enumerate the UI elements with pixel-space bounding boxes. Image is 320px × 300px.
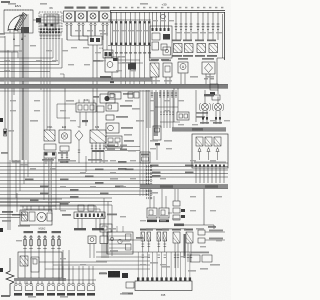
valve Y8 diamond	[75, 131, 83, 141]
connector pair E17/4	[58, 281, 60, 283]
dark connector box K1 mid	[128, 63, 136, 70]
Y3 wires right	[205, 231, 225, 233]
wire bottom elbow	[174, 224, 214, 226]
relay module K40 box	[76, 103, 96, 112]
solenoid Y16 label	[149, 60, 158, 62]
sensor S6/2	[173, 232, 180, 243]
wire bus h1 corner to X6 pin	[0, 57, 53, 59]
component X4/10 box	[108, 92, 121, 99]
connector column box 3	[173, 215, 180, 220]
connector column pins up	[174, 189, 176, 201]
feeder connector ticks row	[142, 254, 144, 256]
right small box below band	[212, 95, 220, 100]
wire stair 9	[0, 190, 150, 192]
K40 pins down	[79, 112, 81, 126]
K8/1 sub box 1	[44, 144, 56, 150]
wire stair 3	[0, 169, 228, 171]
connector tick row under band	[151, 90, 153, 98]
injector pair 2	[157, 232, 161, 241]
lamp E3/1	[202, 104, 209, 111]
terminal tick 15 to edge	[0, 36, 5, 38]
X53 pins from bus	[152, 13, 154, 29]
fuse ladder column 7	[138, 21, 140, 45]
wire join horizontals bottom	[39, 261, 107, 263]
fuse ladder column 1	[110, 21, 112, 45]
switch S30 contact pair	[24, 235, 26, 252]
fuse ladder column 6	[133, 21, 135, 45]
link wire between switches	[168, 212, 172, 214]
wire stair 2	[0, 166, 228, 168]
fuse ladder bottom rail	[108, 45, 151, 47]
lamp E15/3 terminal rings	[66, 23, 68, 25]
elbow connector ticks	[174, 224, 184, 227]
X26 band label	[192, 128, 203, 131]
connector E17/7 dark label	[87, 293, 95, 296]
harness band upper	[0, 78, 152, 81]
corner elbow left of band	[60, 73, 64, 75]
junction box outer	[18, 252, 62, 278]
gauge E5/1 dial arc	[8, 15, 24, 31]
sensor box below strip	[100, 224, 112, 232]
wire left vertical 15	[4, 36, 6, 134]
extra verticals to connector row	[62, 250, 64, 281]
wire stair 8	[0, 187, 150, 189]
sender B4 box	[105, 57, 118, 72]
X6 inner dark squares	[45, 24, 48, 27]
right bus jog down to band	[217, 57, 225, 59]
nested module circle 2	[118, 239, 122, 243]
fuse ladder top rail	[108, 19, 151, 21]
W30 label 2	[205, 185, 218, 188]
wires below switch row	[24, 252, 26, 284]
N3 bottom pins	[195, 168, 197, 183]
connector strip Y27 label	[62, 214, 71, 216]
connector pair E17/1	[26, 281, 28, 283]
meter pins down	[151, 77, 153, 84]
lamp name labels	[200, 122, 209, 124]
strip pins down	[77, 219, 79, 229]
right segment wires from B4	[118, 59, 140, 61]
connector E17/0 dark label	[14, 293, 22, 296]
relay K8/1 box	[44, 130, 55, 141]
M16/2 right box	[47, 213, 52, 221]
junction box below lamps	[88, 36, 102, 45]
connector Y1 label	[208, 226, 216, 228]
diamond pin labels	[204, 78, 208, 80]
small boxes above strip	[78, 205, 84, 211]
wire stair 7	[0, 183, 150, 185]
terminal mark left edge c	[0, 268, 3, 272]
lamp E15/4 bulb	[78, 13, 84, 19]
connector block X53 frame	[150, 26, 172, 58]
wire stair 6	[0, 180, 150, 182]
junction hatched element	[20, 256, 28, 266]
X4/10 label	[123, 93, 133, 95]
ammeter A box	[178, 62, 188, 73]
connector pair E17/3	[48, 281, 50, 283]
switch S17/8 label	[38, 231, 48, 233]
S10/1 pins up	[149, 189, 151, 208]
relay K59	[197, 44, 206, 53]
M16/2 mid box	[29, 212, 35, 221]
right mini labels	[191, 252, 209, 254]
fuse ladder column 2	[115, 21, 117, 45]
lamp wire elbows	[67, 39, 88, 41]
X6 inner box 2	[47, 16, 55, 30]
corner text bottom-left	[1, 295, 10, 297]
mini cluster join wire right	[108, 239, 140, 241]
power bus +30 double line	[110, 10, 225, 12]
box with dark circle above K40	[100, 94, 115, 103]
vertical harness bundle K8 to M16	[48, 158, 50, 212]
K8/1 pins	[45, 158, 47, 164]
connector box X26	[140, 152, 150, 163]
label X58 box	[204, 94, 214, 96]
gauge E5/1 enclosure	[4, 10, 33, 33]
terminal mark left edge a	[0, 118, 3, 122]
X35 feeders	[137, 252, 139, 277]
fuse drops right group	[175, 13, 177, 41]
X35 pin squares	[137, 277, 139, 281]
W30 label 1	[160, 185, 173, 188]
lamp pins down right	[202, 110, 204, 124]
gauge E5/1 baseline and ticks	[8, 29, 22, 31]
fuse ladder column 8	[143, 21, 145, 45]
connector X6 outer dashed box	[39, 12, 62, 33]
wire labels on stairs	[118, 161, 127, 163]
fuse ladder column 5	[129, 21, 131, 45]
M16/2 hatched element	[22, 212, 28, 221]
nested module inner box 1	[126, 234, 132, 240]
terminal circle 30	[161, 14, 166, 19]
X6 weave horizontal wires	[39, 16, 62, 18]
thin verticals beside gray harness	[146, 90, 148, 128]
lamp E15/3 wires down	[66, 26, 68, 40]
wire rows with labels left of X26	[105, 146, 140, 148]
lamp feeds up	[204, 97, 206, 104]
injector labels	[140, 229, 153, 231]
X35 feeder horizontal	[96, 251, 192, 253]
connector pair right of lamps	[128, 92, 133, 98]
elbow wire left	[0, 51, 18, 53]
bottom connector band	[14, 278, 66, 281]
relay K60	[209, 44, 218, 53]
fuse ladder column 3	[119, 21, 121, 45]
connector E17/5 dark label	[67, 293, 75, 296]
connector box under arrows	[103, 50, 113, 58]
harness companion line	[0, 90, 150, 92]
lamp E15/3 label	[65, 7, 74, 9]
X6 connector ticks below	[40, 35, 42, 37]
lamp E15/6 bulb	[102, 13, 108, 19]
lamp E15/6 label	[101, 7, 110, 9]
solenoid Y16 box	[150, 63, 159, 77]
wire right vertical long	[203, 189, 205, 225]
right dark mark below band	[210, 92, 215, 95]
N3 arrow symbols	[198, 148, 201, 152]
connector Y3 upper box	[198, 230, 205, 235]
relay K29 box	[90, 130, 106, 143]
X27 label	[116, 116, 128, 118]
wires up from connector row	[58, 266, 60, 281]
nested module verticals	[110, 228, 112, 232]
wire from K29 pin down	[85, 156, 87, 172]
fuse ladder column 4	[124, 21, 126, 45]
N3 inner bottom bar	[194, 161, 226, 163]
X53 bottom labels	[151, 59, 159, 61]
harness bundle below E5/1	[19, 14, 21, 160]
bottom horizontal wires under module	[96, 256, 150, 258]
switch S10/2 box	[159, 208, 169, 218]
connector E17/2 dark label	[36, 293, 44, 296]
switch S10/1 box	[147, 208, 157, 218]
control unit N3 frame	[192, 134, 228, 168]
nested module circle 1	[110, 237, 113, 240]
sensor S6/1	[186, 232, 193, 243]
wire bus h5	[0, 71, 50, 73]
relay K58	[185, 44, 194, 53]
nested wires above strip	[20, 205, 96, 207]
tall box left of X26 band	[153, 126, 161, 140]
tiny label smudges scatter	[8, 3, 16, 5]
connector pair E17/2	[37, 281, 39, 283]
vertical bar left of S6	[184, 234, 186, 258]
connector E17/6 dark label	[77, 293, 85, 296]
fuse ladder label row	[110, 52, 113, 54]
E24 pins	[61, 151, 63, 163]
K40 loop wire left	[57, 103, 76, 105]
lamp E15/6 terminal rings	[102, 23, 104, 25]
lamp E15/5 terminal rings	[90, 23, 92, 25]
connector column box 2	[173, 208, 180, 213]
K40 top pin stubs	[78, 100, 80, 104]
small boxes above N3	[177, 112, 189, 120]
relay module bottom nested outer	[107, 232, 133, 254]
second dark block	[122, 273, 128, 278]
wire stair 12	[0, 201, 112, 203]
lamp E15/5 bulb	[90, 13, 96, 19]
lamp E15/4 label	[77, 7, 86, 9]
connector column box 1	[173, 201, 180, 206]
lamp E15/5 wires down	[90, 26, 92, 40]
X6 junction dots	[40, 28, 42, 30]
small box left of strip	[126, 282, 134, 288]
junction tall element	[31, 257, 39, 272]
sensor box pins	[102, 232, 104, 236]
bus tiny terminal tags	[113, 7, 115, 9]
switch S10/9 contact pair	[52, 235, 54, 252]
E24 pin ticks	[61, 154, 63, 156]
X6 left terminal dark	[36, 18, 41, 23]
connector E17/1 dark label	[25, 293, 33, 296]
lamp E15/5 housing box	[88, 11, 99, 22]
X53 dark block	[163, 34, 170, 40]
M16/2 top pins	[22, 206, 24, 210]
small mark below tall box	[155, 143, 160, 145]
lamp E15/6 wires down	[102, 26, 104, 40]
lamp E15/6 housing box	[100, 11, 111, 22]
wire stair 11	[0, 197, 112, 199]
connector strip Y27	[74, 212, 105, 219]
bus corner down right	[224, 12, 226, 60]
component M4 box with motor	[106, 123, 119, 133]
arrow end left wire	[3, 131, 6, 136]
W10 label left	[99, 273, 107, 275]
sensor labels S6	[172, 229, 181, 231]
connector pair E17/6	[78, 281, 80, 283]
relay row labels	[172, 55, 182, 57]
mini switch Y31/2	[100, 236, 108, 244]
sender B4 label	[93, 60, 103, 62]
nested module label right	[136, 237, 143, 239]
E24 terminal box	[60, 146, 69, 151]
fuse ladder feeds from bus	[111, 13, 113, 22]
K8 lower box dark marks	[45, 153, 48, 156]
gauge E5/1 terminal block	[21, 27, 29, 33]
gauge E5/1 needle hatched	[14, 13, 27, 31]
N3 element 3	[214, 137, 221, 146]
connector Y3 lower box	[198, 238, 205, 243]
tick marks on verticals	[160, 111, 162, 113]
gauge diamond label	[202, 58, 214, 60]
X6 weave vertical wires corner ends	[52, 14, 54, 58]
Y8 pin ticks	[78, 149, 80, 151]
M16/2 motor circle	[37, 212, 46, 221]
connector E17/3 dark label	[47, 293, 55, 296]
N3 element 2	[205, 137, 212, 146]
connector junction column ticks	[146, 165, 148, 167]
injector pair 1	[141, 232, 145, 241]
band end dark labels	[100, 76, 111, 78]
actuator M16/2 frame	[20, 210, 52, 225]
wire bus h4 corner to X6 pin	[0, 67, 62, 69]
connector E17/4 dark label	[57, 293, 65, 296]
switch S10/9 label	[52, 231, 62, 233]
N3 element 1	[196, 137, 203, 146]
switch S17/8 contact pair	[38, 235, 40, 252]
harness band lower full width	[0, 84, 228, 88]
connector pair E17/5	[68, 281, 70, 283]
N16 label	[120, 105, 132, 107]
scan noise overlay	[0, 0, 1, 1]
connector column dark marks	[181, 209, 185, 212]
X6 inner box 1	[44, 14, 58, 24]
label under left box	[122, 293, 133, 295]
relay K57	[174, 44, 183, 53]
horizontal link y107	[155, 106, 178, 108]
S10/1 dark label plate	[147, 220, 157, 223]
bottom connector band thin extension	[66, 279, 96, 281]
K29 pin ticks	[91, 145, 93, 147]
wire bus h3 corner to X6 pin	[0, 64, 59, 66]
solenoid Y17 box	[163, 63, 172, 77]
vertical gray harness mid-right	[154, 92, 158, 136]
inline fuse on left wire	[4, 129, 7, 136]
feed wires to lamps right	[173, 88, 175, 122]
M4 label	[121, 127, 133, 129]
lamp E15/4 terminal rings	[78, 23, 80, 25]
component N16 box	[106, 103, 118, 111]
X53 inner box 3	[161, 44, 167, 50]
lamp bracket marks	[200, 103, 211, 111]
K29 connector bar	[92, 150, 104, 152]
lamp E15/3 housing box	[64, 11, 75, 22]
gauge pin wire x14 down	[13, 33, 15, 95]
wire stair 5	[0, 176, 228, 178]
mini switch Y31/1	[88, 236, 96, 244]
labels right of boxes above N3	[196, 112, 208, 114]
gauge diamond box	[202, 62, 215, 74]
wire gauge label smudges extra	[14, 45, 20, 46]
junction box outputs down through band	[92, 45, 94, 130]
K31 label	[124, 140, 134, 142]
lamp E3/2	[215, 104, 222, 111]
right mini cluster boxes	[190, 255, 200, 262]
terminal strip X35	[135, 281, 192, 291]
lamp1 lamp2 elbow wires	[66, 26, 68, 40]
lamp E24 box	[59, 130, 71, 143]
shielded harness band W30	[140, 185, 228, 189]
K40 connector tick	[82, 120, 88, 122]
left verticals through M16 area	[9, 160, 11, 230]
solenoid Y17 label	[162, 60, 171, 62]
wire stair 4	[0, 173, 228, 175]
vertical below tall box	[156, 146, 158, 161]
K40 side box	[97, 106, 104, 112]
switch S30 label	[24, 231, 34, 233]
wire bus h2 corner to X6 pin	[0, 61, 56, 63]
component K31 cluster	[106, 136, 122, 148]
relay labels above	[172, 40, 181, 42]
stair corner turns down right	[103, 198, 105, 258]
Y3 wire labels	[209, 230, 223, 232]
X53 inner box 2	[152, 42, 159, 50]
ammeter W15 label	[178, 58, 188, 60]
lamp3 wires into junction box	[90, 26, 92, 36]
X53 inner box 1	[152, 33, 160, 40]
K8/1 sub box 2	[44, 152, 56, 158]
vertical harness bundle x140	[139, 90, 141, 196]
left edge label y152	[1, 152, 8, 154]
wires into M16/2	[0, 198, 62, 200]
wire left vertical 2	[7, 50, 9, 160]
ground strap W10 dark	[108, 271, 120, 278]
stair vertical joins left	[7, 160, 9, 230]
connector pair marks below strip	[74, 228, 86, 230]
lamp E15/4 housing box	[76, 11, 87, 22]
strip label X48 right	[107, 214, 117, 216]
wire stair 1	[0, 162, 228, 164]
horizontal link y122	[160, 121, 180, 123]
Y8 pin	[78, 141, 80, 164]
ground resistor zigzag W3	[6, 258, 14, 296]
component X27 box	[106, 115, 114, 120]
right small box above band	[210, 84, 218, 90]
connector pair E17/0	[15, 281, 17, 283]
K29 pins down	[91, 143, 93, 163]
left text block near M16	[12, 214, 26, 216]
S10/2 dark label plate	[159, 220, 169, 223]
connector pair E17/7	[88, 281, 90, 283]
K8 area label right	[58, 152, 68, 154]
B4 connector below	[110, 81, 114, 83]
wire stair 13	[0, 204, 112, 206]
S10/2 pins up	[161, 189, 163, 208]
lamp E15/4 wires down	[78, 26, 80, 40]
X53 inner coil box	[163, 47, 171, 55]
harness band X26	[172, 128, 226, 132]
E24 feed from band	[64, 88, 66, 130]
